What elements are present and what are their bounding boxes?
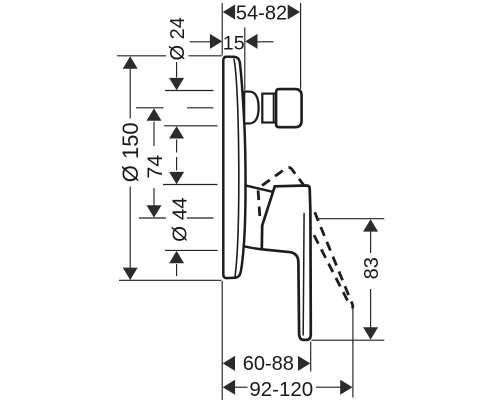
arrow O44 upper (points down) <box>169 172 184 184</box>
svg-text:92-120: 92-120 <box>249 378 313 400</box>
ext line bottom left (x=222.2) <box>221 281 223 400</box>
svg-text:Ø 150: Ø 150 <box>118 122 143 182</box>
dim 15 leader tails <box>190 41 211 43</box>
ext line O24 bottom y=125.8 <box>164 125 218 127</box>
extension line left top (x=222) <box>221 3 223 56</box>
arrow O44 lower (points up) <box>169 251 184 263</box>
arrow 15 right (points left) <box>245 34 257 49</box>
ext line dashed tip (x=352.9) <box>352 309 354 398</box>
arrow 83 bottom <box>363 327 378 339</box>
dim 92-120 line segments <box>235 386 248 388</box>
dim line O150 (x=130.2) <box>129 57 131 119</box>
spout stub end cap <box>276 89 302 127</box>
ext line lever tip (x=310.7) <box>310 342 312 372</box>
svg-text:60-88: 60-88 <box>243 353 294 375</box>
stub centerline y=107.8 <box>136 107 164 109</box>
dim line 74 (x=154) <box>153 122 155 147</box>
svg-text:Ø 44: Ø 44 <box>168 197 191 241</box>
spout stub neck <box>262 94 276 123</box>
ext line plate bottom (y=280.3) <box>119 279 222 281</box>
svg-text:83: 83 <box>361 257 383 279</box>
ext line O44 bottom y=250.4 <box>165 249 218 251</box>
arrow O150 top <box>123 56 138 68</box>
arrow 74 top <box>147 108 162 120</box>
dashed lever tip dash <box>351 302 353 309</box>
escutcheon plate side view <box>223 57 245 278</box>
dashed lever rotated position: top silhouette <box>258 168 304 216</box>
ext line plate top (y=55.8) <box>117 55 166 57</box>
dashed lever blade inner line <box>311 229 350 306</box>
ext line O24 top y=90.5 <box>165 90 214 92</box>
lever blade inner edge line <box>302 213 305 336</box>
O24 arrow stems (x=176.6) <box>176 62 178 78</box>
arrow 15 left (points right) <box>210 34 222 49</box>
arrow 83 top <box>363 219 378 231</box>
ext line 83 bottom y=340.2 <box>312 339 385 341</box>
extension line right top (x=300.6) <box>300 3 302 89</box>
arrow O24 lower (points up) <box>169 126 184 138</box>
arrow 92-120 left <box>223 380 235 395</box>
handle hub bottom curve <box>244 246 262 249</box>
arrow O24 upper (points down) <box>169 78 184 90</box>
spout stub dome <box>244 92 258 124</box>
hub centerline left y=218 <box>139 217 166 219</box>
arrow 54-82 left <box>223 5 235 20</box>
arrow O150 bottom <box>123 268 138 280</box>
svg-text:74: 74 <box>143 155 167 179</box>
O44 arrow stems (x=176.6) <box>176 157 178 171</box>
handle hub top curve <box>245 185 273 192</box>
ext line 83 top y=218.7 <box>317 218 384 220</box>
svg-text:Ø 24: Ø 24 <box>167 17 189 60</box>
ext line O44 top y=184.5 <box>163 184 218 186</box>
arrow 74 bottom <box>147 205 162 217</box>
arrow 92-120 right <box>340 380 352 395</box>
plate inner rim line <box>234 59 239 277</box>
arrow 60-88 left <box>223 356 235 371</box>
dashed lever blade outer line <box>313 207 351 299</box>
svg-text:54-82: 54-82 <box>236 2 287 24</box>
arrow 54-82 right <box>288 5 300 20</box>
lever handle solid <box>262 186 311 340</box>
arrow 60-88 right <box>298 356 310 371</box>
dim line 83 (x=370.2) <box>370 231 372 253</box>
extension line wall plane (15 dim right) <box>244 28 246 91</box>
svg-text:15: 15 <box>223 32 245 54</box>
